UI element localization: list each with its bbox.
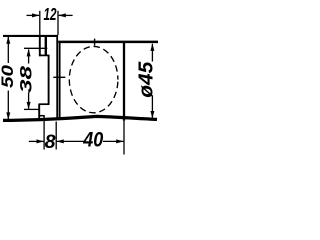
wire dim 8 extension right [55,122,57,150]
node side view left edge middle [48,55,50,105]
wire dim 38 extension top [24,47,47,49]
node front view left edge [59,41,61,119]
wire top edge of side view with extension [3,35,58,37]
wire dim 12 line left [27,14,40,16]
wire dim 40 line right [103,140,123,142]
node side view bottom step [39,103,50,105]
node arrow dim45 down [150,111,154,119]
wire dim 12 extension right [57,11,59,35]
node side view top step [39,54,49,56]
svg-text:40: 40 [82,128,103,151]
node side view right edge [56,35,58,120]
node arrow dim12 left [32,13,40,17]
node side view left edge upper [39,35,41,56]
node arrow dim8 right [56,139,64,143]
wire dim 45 line lower [151,96,153,118]
node arrow dim45 up [150,43,154,51]
wire dim 12 line right [59,14,73,16]
svg-text:8: 8 [45,131,56,153]
wire front view top edge with extension right [58,41,158,44]
wire dim 45 line upper [151,44,153,62]
node arrow dim50 down [6,112,10,120]
node side view inner notch vertical [43,116,45,120]
node arrow dim38 down [27,102,31,110]
node hidden circle dashed ellipse [69,46,118,112]
wire bottom edge with extensions [3,116,157,120]
wire dim 50 line upper [7,37,9,63]
svg-text:12: 12 [44,4,57,24]
wire dim 38 extension bottom [24,108,39,110]
wire dim 40 extension right [123,121,125,155]
node arrow dim40 right [116,139,124,143]
svg-text:50: 50 [0,64,17,88]
wire dim 38 line upper [28,50,30,64]
svg-text:ø45: ø45 [136,61,158,98]
node center tick top [94,39,96,46]
node arrow dim38 up [27,49,31,57]
node side view inner notch horizontal [39,115,45,117]
node side view inner edge top [45,36,47,56]
node side view left edge lower [38,104,40,120]
wire dim 8 extension left [43,120,45,150]
wire dim 8 line left tail [29,140,44,142]
wire dim 50 line lower [7,91,9,120]
node arrow dim12 right [58,13,66,17]
node arrow dim8 left [37,139,45,143]
wire dim 38 line lower [28,93,30,109]
node center tick left [53,76,65,78]
wire dim 8-40 shared line [57,140,84,142]
wire dim 12 extension left [39,11,41,35]
node arrow dim50 up [6,36,10,44]
node front view right edge [123,41,125,120]
svg-text:38: 38 [16,65,35,93]
